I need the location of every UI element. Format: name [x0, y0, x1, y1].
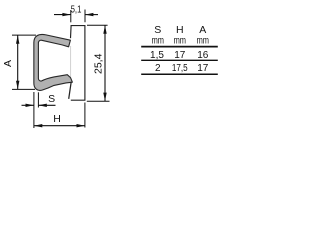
svg-text:A: A [2, 60, 14, 67]
profile bar (white vertical bar 5,1 x 25,4) [71, 25, 85, 100]
table rule under row 2 [141, 73, 218, 75]
table data row 2: 2 17,5 17 [155, 63, 209, 74]
svg-text:mm: mm [197, 36, 209, 47]
dimension 25,4 lines and arrows [87, 25, 110, 101]
clip lower lip line [69, 82, 72, 99]
svg-text:mm: mm [152, 36, 164, 47]
svg-text:1,5: 1,5 [150, 50, 164, 61]
table header row S H A [154, 24, 206, 36]
dimension 25,4 label (rotated) [93, 53, 105, 74]
dimension S label [48, 93, 55, 105]
svg-text:mm: mm [174, 36, 186, 47]
svg-text:17,5: 17,5 [172, 63, 188, 74]
dimension 5,1 label [71, 3, 82, 15]
svg-text:H: H [176, 24, 184, 36]
table rule under row 1 [141, 59, 218, 61]
svg-text:S: S [48, 93, 55, 105]
svg-text:25,4: 25,4 [93, 53, 105, 74]
svg-text:A: A [199, 24, 206, 36]
svg-text:17: 17 [197, 63, 209, 74]
svg-text:S: S [154, 24, 161, 36]
svg-text:H: H [53, 113, 61, 125]
svg-text:5,1: 5,1 [71, 3, 82, 15]
clip profile (grey C-shaped spring clip) [34, 34, 73, 90]
svg-text:17: 17 [174, 50, 186, 61]
svg-text:16: 16 [197, 50, 209, 61]
dimension H lines and arrows [34, 103, 85, 128]
dimension S lines and arrows [22, 92, 56, 128]
table rule under header [141, 46, 218, 48]
svg-text:2: 2 [155, 63, 161, 74]
dimension A label (rotated) [2, 60, 14, 67]
dimension A lines and arrows [12, 35, 36, 89]
dimension H label [53, 113, 61, 125]
table data row 1: 1,5 17 16 [150, 50, 209, 61]
table units row mm mm mm [152, 36, 209, 47]
dimension 5,1 lines and arrows [54, 10, 98, 23]
